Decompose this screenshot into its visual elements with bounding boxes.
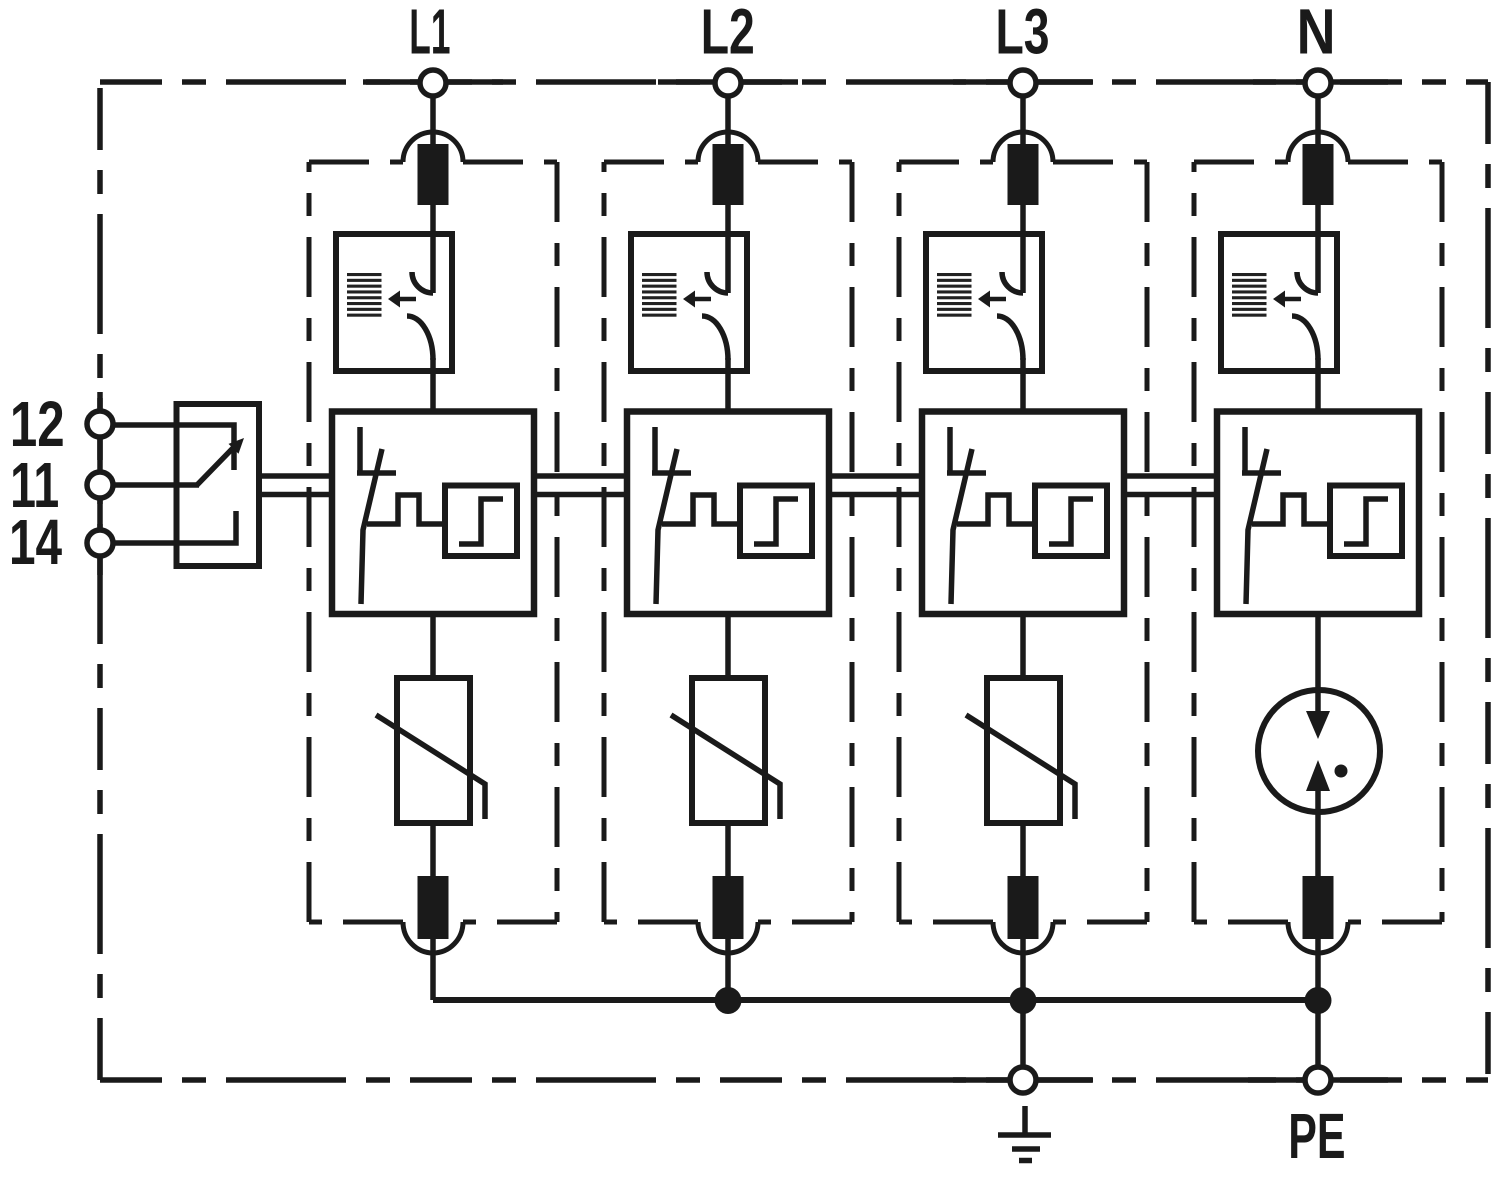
SPD L3 trigger box	[1035, 486, 1107, 557]
contact common stub 11	[176, 482, 199, 488]
module box L1 top-left dashed edge	[309, 160, 403, 165]
wire L2 terminal to top connection	[725, 95, 731, 150]
module box L1 bottom arc	[403, 922, 463, 953]
wire terminal 12 to contact	[113, 422, 176, 428]
module box N bottom-left dashed edge	[1194, 920, 1288, 925]
module box L2 right dashed edge	[850, 162, 855, 922]
module box L2 top-left dashed edge	[604, 160, 698, 165]
module box L3 bottom-left dashed edge	[899, 920, 993, 925]
disconnector L2 indicator hash block	[642, 273, 677, 317]
SPD L3 trigger step symbol	[1049, 499, 1093, 544]
junction node at L3	[1010, 987, 1037, 1014]
earth bus wire	[433, 997, 1319, 1003]
varistor L2 diagonal	[671, 715, 780, 819]
monitoring bus lower wire segment 4	[1124, 492, 1217, 498]
SPD L3 switch contact tick	[947, 470, 986, 476]
wire N terminal block to disconnector	[1315, 205, 1321, 237]
disconnector L1 indicator hash block	[347, 273, 382, 317]
SPD L3 thermal trip staircase	[957, 495, 1035, 524]
SPD L1 switch contact tick	[357, 470, 396, 476]
spark gap N circle	[1258, 690, 1380, 812]
disconnection device box N	[1221, 234, 1337, 371]
wire L3 varistor to bottom block	[1020, 823, 1026, 878]
wire L3 terminal to top connection	[1020, 95, 1026, 150]
SPD L2 switch upper stub	[652, 427, 658, 474]
SPD box L2	[627, 412, 829, 615]
border solid segment at N terminal	[1253, 79, 1388, 85]
spark gap N upper electrode wire	[1315, 690, 1321, 713]
module box L2 bottom-right dashed edge	[758, 920, 852, 925]
terminal block N bottom (filled)	[1303, 876, 1334, 939]
SPD N trigger step symbol	[1344, 499, 1388, 544]
wire L3 into disconnector	[1020, 237, 1026, 293]
SPD N switch contact tick	[1242, 470, 1281, 476]
SPD L2 thermal trip staircase	[662, 495, 740, 524]
module box L3 top-right dashed edge	[1053, 160, 1147, 165]
wire L2 disconnector to SPD box	[725, 358, 731, 413]
wire L2 bottom block to earth bus	[725, 939, 731, 1000]
module box L3 top-left dashed edge	[899, 160, 993, 165]
SPD box L1	[332, 412, 534, 615]
module box L2 bottom arc	[698, 922, 758, 953]
SPD N thermal trip staircase	[1252, 495, 1330, 524]
wire L1 terminal to top connection	[430, 95, 436, 150]
terminal block L2 bottom (filled)	[713, 876, 744, 939]
SPD L1 trigger box	[445, 486, 517, 557]
terminal circle L1	[420, 70, 446, 96]
disconnector L2 upper contact hook	[707, 272, 728, 293]
module box L2 bottom-left dashed edge	[604, 920, 698, 925]
module box L1 right dashed edge	[555, 162, 560, 922]
monitoring bus lower wire segment 1	[259, 492, 332, 498]
SPD L3 switch blade	[951, 449, 972, 604]
disconnector L1 upper contact hook	[412, 272, 433, 293]
wire L2 terminal block to disconnector	[725, 205, 731, 237]
SPD N trigger box	[1330, 486, 1402, 557]
terminal block L2 top (filled)	[713, 144, 744, 205]
SPD L2 trigger step symbol	[754, 499, 798, 544]
wire L1 into disconnector	[430, 237, 436, 293]
module box L3 bottom-right dashed edge	[1053, 920, 1147, 925]
SPD L2 trigger box	[740, 486, 812, 557]
wire N into disconnector	[1315, 237, 1321, 293]
disconnector N lower contact curve	[1292, 316, 1318, 360]
terminal circle 12	[87, 411, 113, 437]
junction node at N	[1305, 987, 1332, 1014]
wire L3 SPD box to varistor	[1020, 614, 1026, 680]
module box L1 bottom-right dashed edge	[463, 920, 557, 925]
module box L3 right dashed edge	[1145, 162, 1150, 922]
varistor L3 body	[987, 678, 1060, 823]
disconnection device box L1	[336, 234, 452, 371]
monitoring bus lower wire segment 3	[829, 492, 922, 498]
spark gap N gas indicator dot	[1335, 765, 1348, 778]
module box N bottom-right dashed edge	[1348, 920, 1442, 925]
ground symbol	[998, 1106, 1051, 1161]
remote contact box	[177, 404, 260, 566]
terminal block L1 bottom (filled)	[418, 876, 449, 939]
module box N right dashed edge	[1440, 162, 1445, 922]
module box N top arc	[1288, 132, 1348, 162]
wire L2 into disconnector	[725, 237, 731, 293]
monitoring bus upper wire segment 1	[259, 473, 332, 479]
contact blade arrowhead	[229, 438, 245, 454]
monitoring bus upper wire segment 2	[534, 473, 627, 479]
wire N SPD box to spark gap	[1315, 614, 1321, 692]
wire L1 disconnector to SPD box	[430, 358, 436, 413]
disconnector L2 lower contact curve	[702, 316, 728, 360]
wire N disconnector to SPD box	[1315, 358, 1321, 413]
svg-text:PE: PE	[1288, 1100, 1345, 1172]
module box L3 bottom arc	[993, 922, 1053, 953]
monitoring bus upper wire segment 4	[1124, 473, 1217, 479]
spark gap N upper electrode arrow	[1306, 711, 1330, 739]
SPD L1 switch blade	[361, 449, 382, 604]
enclosure border left edge (dash-dot)	[97, 82, 103, 1080]
enclosure border right edge (dash-dot)	[1485, 82, 1491, 1080]
module box L3 left dashed edge	[897, 162, 902, 922]
SPD box L3	[922, 412, 1124, 615]
wire L1 SPD box to varistor	[430, 614, 436, 680]
disconnector N upper contact hook	[1297, 272, 1318, 293]
disconnector L1 indicator arrow	[388, 291, 416, 308]
terminal block N top (filled)	[1303, 144, 1334, 205]
svg-text:N: N	[1297, 0, 1336, 68]
wire L3 bottom block to earth bus	[1020, 939, 1026, 1080]
wire terminal 11 to contact	[113, 482, 176, 488]
module box N bottom arc	[1288, 922, 1348, 953]
enclosure border top edge (dash-dot)	[100, 79, 1488, 85]
varistor L2 body	[692, 678, 765, 823]
border solid segment at PE terminal	[1248, 1077, 1388, 1083]
module box N left dashed edge	[1192, 162, 1197, 922]
wire N spark gap to bottom block	[1315, 789, 1321, 878]
wire L3 terminal block to disconnector	[1020, 205, 1026, 237]
SPD N switch blade	[1246, 449, 1267, 604]
disconnector N indicator hash block	[1232, 273, 1267, 317]
module box L2 left dashed edge	[602, 162, 607, 922]
terminal circle L2	[715, 70, 741, 96]
contact 14 fixed path	[113, 511, 236, 543]
monitoring bus upper wire segment 3	[829, 473, 922, 479]
wire L3 disconnector to SPD box	[1020, 358, 1026, 413]
wire N bottom block to earth bus	[1315, 939, 1321, 1080]
SPD L1 switch upper stub	[357, 427, 363, 474]
terminal circle earth	[1010, 1067, 1036, 1093]
varistor L1 body	[397, 678, 470, 823]
disconnector N indicator arrow	[1273, 291, 1301, 308]
module box L1 left dashed edge	[307, 162, 312, 922]
svg-text:14: 14	[9, 506, 63, 577]
contact 12 fixed path	[176, 425, 234, 470]
svg-text:L3: L3	[996, 0, 1050, 67]
disconnector L3 upper contact hook	[1002, 272, 1023, 293]
contact blade 11	[197, 448, 233, 485]
SPD L3 switch upper stub	[947, 427, 953, 474]
module box L2 top-right dashed edge	[758, 160, 852, 165]
svg-text:L1: L1	[409, 0, 450, 67]
disconnector L1 lower contact curve	[407, 316, 433, 360]
terminal block L3 bottom (filled)	[1008, 876, 1039, 939]
SPD L1 trigger step symbol	[459, 499, 503, 544]
wire L1 bottom block to earth bus	[430, 939, 436, 1000]
border solid segment at ground terminal	[953, 1077, 1093, 1083]
wire L2 varistor to bottom block	[725, 823, 731, 878]
disconnection device box L2	[631, 234, 747, 371]
disconnector L2 indicator arrow	[683, 291, 711, 308]
module box L1 top-right dashed edge	[463, 160, 557, 165]
terminal block L3 top (filled)	[1008, 144, 1039, 205]
enclosure border bottom edge (dash-dot)	[100, 1077, 1488, 1083]
terminal circle N	[1305, 70, 1331, 96]
border solid segment at L1 terminal	[363, 79, 503, 85]
SPD box N	[1217, 412, 1419, 615]
border solid segment at terminals 12-11-14	[97, 392, 103, 575]
module box L3 top arc	[993, 132, 1053, 162]
SPD L2 switch blade	[656, 449, 677, 604]
wire L1 terminal block to disconnector	[430, 205, 436, 237]
terminal circle 14	[87, 530, 113, 556]
terminal circle PE	[1305, 1067, 1331, 1093]
disconnector L3 indicator arrow	[978, 291, 1006, 308]
module box L1 top arc	[403, 132, 463, 162]
module box N top-right dashed edge	[1348, 160, 1442, 165]
SPD N switch upper stub	[1242, 427, 1248, 474]
terminal circle L3	[1010, 70, 1036, 96]
disconnection device box L3	[926, 234, 1042, 371]
wire N terminal to top connection	[1315, 95, 1321, 150]
wire L1 varistor to bottom block	[430, 823, 436, 878]
junction node at L2	[715, 987, 742, 1014]
module box L1 bottom-left dashed edge	[309, 920, 403, 925]
wire L2 SPD box to varistor	[725, 614, 731, 680]
module box L2 top arc	[698, 132, 758, 162]
module box N top-left dashed edge	[1194, 160, 1288, 165]
terminal block L1 top (filled)	[418, 144, 449, 205]
disconnector L3 indicator hash block	[937, 273, 972, 317]
varistor L1 diagonal	[376, 715, 485, 819]
disconnector L3 lower contact curve	[997, 316, 1023, 360]
border solid segment at L2 terminal	[658, 79, 798, 85]
border solid segment at L3 terminal	[953, 79, 1093, 85]
svg-text:L2: L2	[701, 0, 755, 67]
spark gap N lower electrode arrow	[1306, 760, 1330, 791]
varistor L3 diagonal	[966, 715, 1075, 819]
SPD L1 thermal trip staircase	[367, 495, 445, 524]
monitoring bus lower wire segment 2	[534, 492, 627, 498]
terminal circle 11	[87, 472, 113, 498]
SPD L2 switch contact tick	[652, 470, 691, 476]
